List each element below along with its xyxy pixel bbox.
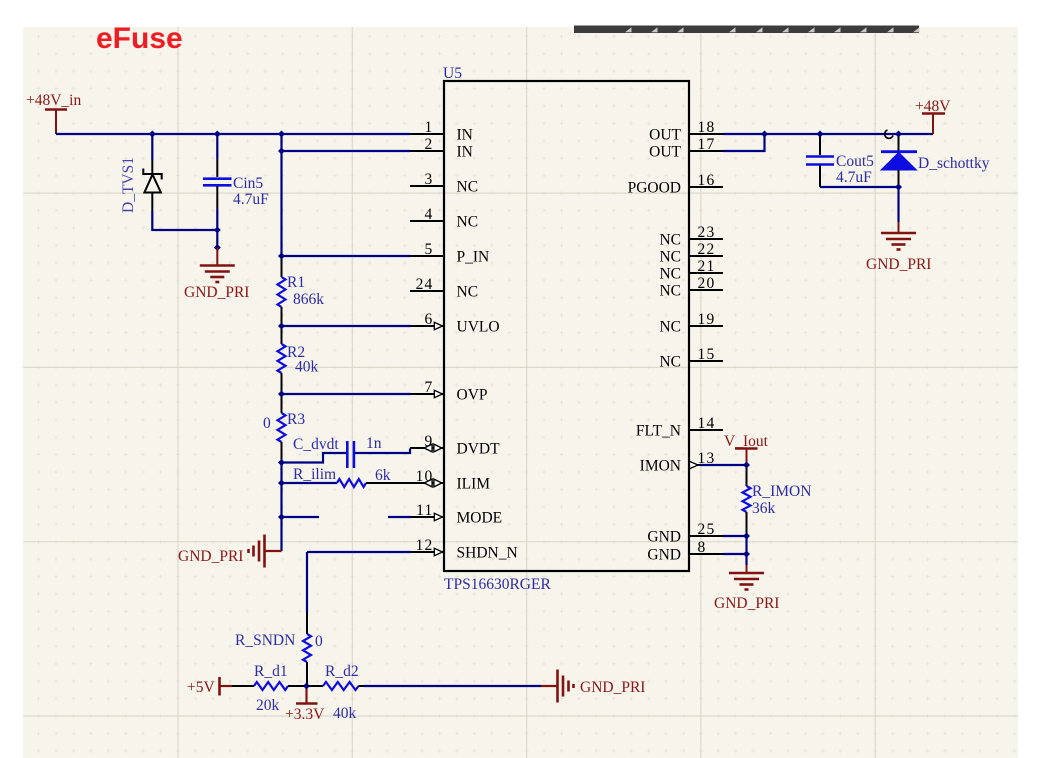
svg-text:MODE: MODE (457, 510, 503, 527)
power port +48V (915, 98, 951, 134)
junction (278, 253, 285, 260)
junction (278, 480, 285, 487)
no-ERC marker arc (885, 130, 893, 138)
pin 4 NC (left) (410, 206, 478, 231)
svg-text:20k: 20k (256, 697, 280, 714)
svg-text:4.7uF: 4.7uF (233, 191, 269, 208)
svg-text:NC: NC (659, 249, 681, 266)
svg-text:+48V_in: +48V_in (26, 92, 81, 109)
capacitor Cin5 4.7uF (203, 159, 232, 209)
svg-text:19: 19 (698, 311, 716, 328)
svg-text:7: 7 (425, 379, 434, 396)
wire pin13 IMON to R_IMON (700, 464, 747, 466)
svg-text:OVP: OVP (457, 387, 488, 404)
svg-text:11: 11 (416, 502, 433, 519)
pin 5 P_IN (left) (410, 241, 489, 266)
pin 25 GND (right) (647, 521, 723, 546)
svg-text:NC: NC (659, 232, 681, 249)
wire bottom rail to ground (364, 685, 541, 687)
svg-text:NC: NC (659, 354, 681, 371)
junction (214, 244, 221, 251)
capacitor C_dvdt 1n (347, 441, 354, 468)
resistor R_d1 20k (232, 682, 307, 690)
wire branch to pin5 P_IN (282, 255, 411, 257)
svg-text:Cout5: Cout5 (836, 153, 874, 170)
svg-text:UVLO: UVLO (457, 319, 500, 336)
svg-text:3: 3 (425, 171, 434, 188)
wire branch to pin2 IN (282, 150, 411, 152)
junction (743, 533, 750, 540)
svg-text:22: 22 (698, 241, 716, 258)
pin 12 SHDN_N (left) (410, 537, 518, 562)
pin 18 OUT (right) (649, 119, 723, 144)
svg-text:+5V: +5V (187, 679, 215, 696)
resistor R_d2 40k (307, 682, 365, 690)
pin 22 NC (right) (659, 241, 723, 266)
svg-text:GND_PRI: GND_PRI (184, 284, 249, 301)
svg-text:GND: GND (647, 547, 681, 564)
svg-text:NC: NC (659, 319, 681, 336)
wire MODE right piece (388, 516, 411, 518)
power port V_Iout (724, 433, 769, 465)
pin 23 NC (right) (659, 224, 723, 249)
svg-text:40k: 40k (295, 359, 319, 376)
svg-text:1: 1 (425, 119, 434, 136)
junction (278, 391, 285, 398)
svg-text:5: 5 (425, 241, 434, 258)
svg-text:6k: 6k (375, 467, 391, 484)
svg-text:TPS16630RGER: TPS16630RGER (444, 576, 551, 593)
wire TVS bottom to Cin5 bottom (152, 211, 217, 230)
junction (895, 184, 902, 191)
wire SHDN_N (307, 551, 411, 553)
junction (278, 323, 285, 330)
pin 7 OVP (left) (410, 379, 488, 404)
pin 15 NC (right) (659, 346, 723, 371)
ground GND_PRI under Cin5 (200, 248, 235, 283)
pin 14 FLT_N (right) (636, 415, 723, 440)
power port +5V (187, 677, 232, 696)
svg-text:GND_PRI: GND_PRI (178, 548, 243, 565)
pin 21 NC (right) (659, 258, 723, 283)
svg-text:25: 25 (698, 521, 716, 538)
pin 16 PGOOD (right) (628, 172, 723, 197)
pin 2 IN (left) (410, 136, 473, 161)
svg-text:Cin5: Cin5 (233, 175, 263, 192)
top toolbar bar (574, 26, 919, 34)
svg-text:866k: 866k (293, 291, 324, 308)
svg-text:IN: IN (457, 127, 473, 144)
svg-text:R_d2: R_d2 (325, 663, 359, 680)
svg-text:OUT: OUT (649, 144, 681, 161)
svg-text:18: 18 (698, 119, 716, 136)
pin 20 NC (right) (659, 275, 723, 300)
svg-text:40k: 40k (333, 705, 357, 722)
svg-text:NC: NC (659, 283, 681, 300)
svg-text:OUT: OUT (649, 127, 681, 144)
wire pin25 GND (723, 535, 747, 537)
junction (303, 683, 310, 690)
svg-text:14: 14 (698, 415, 716, 432)
junction (278, 459, 285, 466)
svg-text:DVDT: DVDT (457, 441, 501, 458)
wire R_ilim to pin10 (282, 482, 338, 484)
wire C_dvdt right to pin9 DVDT (355, 449, 410, 454)
capacitor Cout5 4.7uF (806, 134, 834, 187)
svg-text:23: 23 (698, 224, 716, 241)
wire pin8 GND (723, 553, 747, 555)
svg-text:R_SNDN: R_SNDN (235, 632, 295, 649)
pin 11 MODE (left) (410, 502, 502, 527)
wire MODE left piece (282, 516, 320, 518)
svg-text:0: 0 (263, 415, 271, 432)
power port +48V_in (26, 92, 81, 134)
svg-text:8: 8 (698, 539, 707, 556)
pin 3 NC (left) (410, 171, 478, 196)
wire C_dvdt left (282, 453, 347, 463)
pin 19 NC (right) (659, 311, 723, 336)
svg-text:12: 12 (416, 537, 434, 554)
svg-text:NC: NC (659, 266, 681, 283)
resistor R_ilim 6k (282, 479, 411, 487)
svg-text:NC: NC (457, 179, 479, 196)
junction (149, 131, 156, 138)
wire pin17 OUT to rail (723, 134, 765, 151)
svg-text:24: 24 (416, 276, 434, 293)
svg-text:R1: R1 (287, 274, 305, 291)
wire Cout5 bottom to diode bottom (820, 186, 899, 188)
ground GND_PRI (bottom right, sideways) (541, 670, 574, 703)
junction (214, 227, 221, 234)
svg-text:R3: R3 (287, 411, 305, 428)
svg-text:0: 0 (315, 633, 323, 650)
wire Cin5 bottom (216, 209, 218, 248)
wire GND vertical (745, 536, 747, 565)
junction (278, 514, 285, 521)
svg-text:1n: 1n (366, 435, 382, 452)
svg-text:D_TVS1: D_TVS1 (120, 157, 137, 213)
wire branch to pin6 UVLO (282, 325, 412, 327)
svg-text:R_IMON: R_IMON (752, 483, 811, 500)
pin 6 UVLO (left) (410, 311, 500, 336)
svg-text:U5: U5 (443, 65, 462, 82)
resistor R_IMON 36k (743, 465, 751, 536)
pin 8 GND (right) (647, 539, 723, 564)
svg-text:NC: NC (457, 284, 479, 301)
svg-text:20: 20 (698, 275, 716, 292)
junction (817, 131, 824, 138)
wire TVS branch (151, 134, 153, 160)
svg-text:NC: NC (457, 214, 479, 231)
svg-text:C_dvdt: C_dvdt (293, 436, 339, 453)
resistor R3 0 (278, 394, 286, 462)
junction (214, 131, 221, 138)
wire diode bottom down (897, 187, 899, 222)
junction (761, 131, 768, 138)
junction (743, 551, 750, 558)
svg-text:eFuse: eFuse (96, 22, 183, 55)
pin 1 IN (left) (410, 119, 473, 144)
svg-text:FLT_N: FLT_N (636, 423, 681, 440)
svg-text:IMON: IMON (640, 458, 681, 475)
svg-text:16: 16 (698, 172, 716, 189)
resistor R_SNDN 0 (303, 612, 311, 686)
ground GND_PRI (under R_IMON) (729, 565, 764, 590)
junction (895, 131, 902, 138)
junction (278, 131, 285, 138)
svg-text:GND_PRI: GND_PRI (580, 679, 645, 696)
ground GND_PRI (left, sideways) (249, 535, 282, 568)
svg-text:17: 17 (698, 136, 716, 153)
svg-text:4.7uF: 4.7uF (836, 169, 872, 186)
wire vertical divider bus x=281 (280, 134, 282, 258)
ground GND_PRI (under D_schottky) (881, 222, 916, 250)
svg-text:R_ilim: R_ilim (293, 466, 336, 483)
wire pin18 OUT rail (723, 133, 933, 135)
pin 9 DVDT (left) (410, 433, 500, 458)
pin 24 NC (left) (410, 276, 478, 301)
junction (743, 462, 750, 469)
svg-text:+3.3V: +3.3V (285, 706, 325, 723)
diode D_schottky (881, 134, 917, 187)
svg-text:R_d1: R_d1 (254, 663, 288, 680)
svg-text:6: 6 (425, 311, 434, 328)
svg-text:4: 4 (425, 206, 434, 223)
svg-text:36k: 36k (752, 500, 776, 517)
IC U5 TPS16630RGER body (444, 81, 689, 571)
svg-text:15: 15 (698, 346, 716, 363)
svg-text:P_IN: P_IN (457, 249, 490, 266)
svg-text:GND_PRI: GND_PRI (866, 256, 931, 273)
svg-text:ILIM: ILIM (457, 476, 491, 493)
svg-text:GND: GND (647, 529, 681, 546)
junction (278, 148, 285, 155)
pin 17 OUT (right) (649, 136, 723, 161)
wire main input +48V_in rail to pin1 IN (56, 133, 410, 135)
pin 13 IMON (right) (640, 450, 723, 475)
pin 10 ILIM (left) (410, 468, 490, 493)
svg-text:2: 2 (425, 136, 434, 153)
diode D_TVS1 (0, 0, 162, 211)
svg-text:IN: IN (457, 144, 473, 161)
power port +3.3V (296, 686, 318, 704)
wire Cin5 top lead (216, 134, 218, 159)
svg-text:PGOOD: PGOOD (628, 180, 681, 197)
resistor R1 866k (278, 256, 286, 326)
svg-text:21: 21 (698, 258, 716, 275)
svg-text:GND_PRI: GND_PRI (714, 595, 779, 612)
resistor R2 40k (278, 326, 286, 394)
wire branch to pin7 OVP (282, 393, 412, 395)
svg-text:SHDN_N: SHDN_N (457, 545, 518, 562)
svg-text:D_schottky: D_schottky (918, 155, 990, 172)
